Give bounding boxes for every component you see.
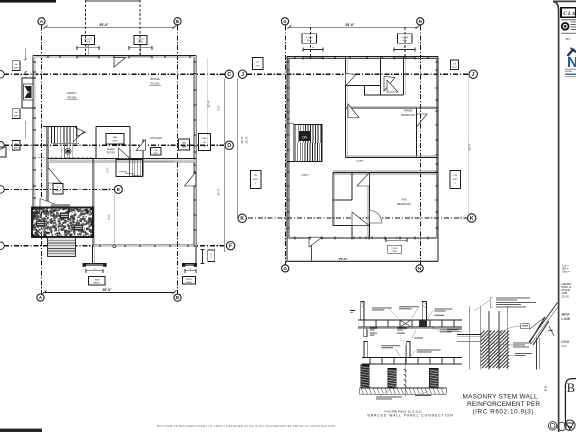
window [128,56,130,59]
door swing 3 [348,104,359,118]
svg-text:HDR: HDR [138,42,143,44]
wall v bath [351,173,353,201]
bottom stud right [430,369,438,389]
door swing 2 [384,77,395,92]
svg-text:25'-0": 25'-0" [345,23,355,27]
wall tag box left [12,61,20,71]
left edge mark [350,309,355,311]
wall ticks right plan top [294,56,296,59]
window dim ticks top right [129,47,152,49]
N logo subtext [565,68,576,71]
door swing 4 [417,114,428,127]
window dim [394,49,415,51]
svg-text:30'-0": 30'-0" [245,136,249,143]
window [76,56,78,59]
grid line K [248,217,468,219]
stair treads upper run [51,126,53,143]
side tag box left top [253,58,264,70]
svg-text:FAMILY: FAMILY [67,91,77,95]
stair lower run [61,143,63,158]
detail: masonry stem wall [447,298,560,416]
window centerline drop right-plan left [310,28,312,57]
grid circle D left fragment [0,142,4,150]
svg-text:30'-0": 30'-0" [468,143,472,150]
svg-text:D: D [227,143,231,149]
entry door swing [119,148,131,159]
svg-text:ENTRY: ENTRY [107,152,115,154]
svg-text:FAMILY: FAMILY [107,148,115,151]
svg-text:BWP: BWP [113,141,119,143]
svg-text:G: G [283,19,287,24]
left plan top wall [33,55,196,57]
wall ticks left plan right [193,61,196,63]
small dim between F and stub [202,250,204,264]
extension line C-F [224,79,226,253]
post double line [536,338,538,370]
interior wall vertical stair-side [47,127,49,208]
right plan right wall [437,57,439,262]
svg-text:B: B [176,295,179,300]
svg-text:REINFORCEMENT PER: REINFORCEMENT PER [467,401,540,408]
grid circle A top [38,18,45,25]
door swing laundry [48,168,61,184]
svg-text:DN: DN [302,136,307,140]
anchor leaders [380,388,392,396]
ledg tag [521,324,530,329]
grid circle J left [238,70,246,78]
wall v closet [416,108,418,158]
crawl tag [386,239,407,241]
node dot on bottom wall [113,245,116,248]
wall ticks right plan bottom [294,237,296,240]
door arc bed2 [370,210,383,223]
wall v hall2 [379,57,381,95]
svg-text:no.: no. [566,36,571,41]
grid circle B bottom [174,294,181,301]
svg-text:KITCHEN: KITCHEN [150,136,162,140]
bottom stud left [361,365,369,388]
BWP tag right [183,277,196,285]
wall tag box [151,148,162,156]
svg-text:J: J [472,72,475,78]
svg-text:B: B [176,19,179,24]
threaded rod [404,345,406,397]
closet top [365,86,381,95]
stem wall hatch [481,331,509,369]
grid circle E [114,185,122,193]
svg-text:2-2x10: 2-2x10 [85,38,92,40]
door swing 1 [346,74,357,87]
svg-text:BEDROOM: BEDROOM [401,113,414,117]
kitchen wall [142,139,144,177]
counter line [143,161,174,163]
window [393,57,395,60]
window centerline drop left [85,0,87,56]
grid circle J right [469,70,477,78]
stair door circle [65,148,71,154]
dim 4ft right stub [185,270,196,272]
stamp circle [562,23,569,30]
dimension line A-B top 25-0 [45,26,174,28]
entry door top wall [114,58,126,67]
bottom wall stub right [183,263,196,265]
svg-text:LAUNDRY: LAUNDRY [101,189,112,192]
pantry tag box [106,134,124,145]
bwp stud upper-right [422,302,426,321]
window centerline drop right [139,0,141,56]
right plan left wall [286,57,288,262]
svg-text:K: K [240,216,244,222]
svg-text:BWP: BWP [14,147,19,149]
svg-text:H: H [419,19,422,24]
grid circle K left [238,214,246,222]
svg-text:5'-0": 5'-0" [107,214,111,220]
svg-text:BWP: BWP [453,179,458,181]
stair up arrow [77,128,86,136]
svg-text:DINING: DINING [150,77,160,81]
grid circle H top [417,18,424,25]
grid line B (vertical) [177,26,179,294]
dimension line G-H top 25-0 [289,26,417,28]
DN arrow [299,131,310,141]
side tag box right top [451,60,459,70]
svg-text:BRACED WALL PANEL CONNECTION: BRACED WALL PANEL CONNECTION [368,413,454,417]
side windows [287,61,289,63]
grid circle G bottom [282,265,289,272]
svg-text:Sec =: Sec = [563,269,571,273]
black corner block [362,364,368,376]
wall ticks left plan left [33,61,36,63]
interior wall parallels [346,57,348,158]
side tag box right mid [450,171,461,189]
svg-text:BWP: BWP [56,191,61,193]
door swing 7 [352,212,369,226]
title block [548,8,576,431]
svg-text:KING: KING [562,340,570,344]
wall h hall [346,85,365,87]
svg-text:ROOM: ROOM [151,82,160,86]
door swing 2b [387,80,398,92]
sheet number round rect [565,379,576,428]
BWP tag left [89,277,106,286]
wall h bedroom3 [346,107,439,109]
grid line A (vertical) [41,26,43,294]
interior wall garage side [92,159,94,247]
wall tag box left [12,109,20,119]
svg-text:LINE: LINE [562,316,571,321]
porch steps [48,238,76,257]
svg-text:LOFT: LOFT [301,173,308,177]
bwp stud lower-left [364,342,367,358]
header tag box [398,34,413,44]
tag box near E [53,184,63,195]
interior wall horizontal main [48,159,196,162]
masonry porch stipple [32,207,94,238]
svg-text:BWP: BWP [14,68,19,70]
svg-text:HDR: HDR [307,40,312,42]
svg-text:N: N [567,54,576,71]
bottom-left scan bar [0,429,42,432]
N logo roof [568,50,576,57]
svg-text:C: C [227,72,231,78]
grid circle F [226,242,234,250]
svg-text:35'-4": 35'-4" [207,100,211,107]
svg-text:HDR: HDR [86,42,91,44]
window [302,57,304,60]
window right wall [194,134,196,136]
door swing 6 [357,173,370,187]
svg-text:5'-6": 5'-6" [217,105,221,111]
svg-text:21'-2": 21'-2" [217,188,221,195]
left dim line [25,48,27,60]
door swing 8 [309,237,322,247]
grid line C [4,73,225,75]
grid line D [4,144,225,146]
30-0 dim right [468,77,470,215]
svg-text:F: F [229,244,232,250]
top note block [496,297,530,300]
svg-text:2-2x10: 2-2x10 [306,37,313,39]
CLS logo box [561,8,576,18]
basement stair well [116,160,143,177]
svg-text:HDR: HDR [182,146,187,148]
wall poche fills [33,56,196,58]
kitchen door swing [136,140,146,151]
left plan bottom wall [93,246,196,248]
grid circle E left fragment [0,186,4,194]
wall ticks right plan left [286,61,289,63]
dim 4ft left stub [86,270,103,272]
stamp side text [571,21,576,24]
door swing right wall [185,172,196,186]
svg-text:BWP: BWP [153,153,158,155]
stair break diagonal [74,132,84,142]
svg-text:G: G [283,266,287,271]
svg-text:BEDROOM: BEDROOM [397,202,410,206]
grid line G (vertical) [285,26,287,265]
grid line H (vertical) [420,26,422,265]
header tag box [134,36,147,45]
sistered note [513,342,532,345]
grid circle K right [468,214,476,222]
door swing rear [40,199,64,208]
grid circle B top [174,18,181,25]
left plan right wall [195,56,197,247]
header tag box [302,34,317,44]
porch corner blocks [32,208,35,211]
sill plate [360,388,447,394]
deck side wall [311,237,313,261]
wall h left room [287,123,294,125]
floor note [515,352,532,355]
svg-text:J: J [241,72,244,78]
svg-text:9'-2": 9'-2" [107,167,110,172]
grid circle C [225,70,233,78]
stem wall verticals [468,306,470,370]
note smudges upper [372,307,392,310]
wall h bottom closet [333,225,370,227]
X blocking [400,320,411,327]
wall v mid [332,173,334,226]
beam line dashed [33,157,92,159]
grid circle G top [281,18,288,25]
right plan bottom wall [287,236,438,238]
svg-text:16oc: 16oc [255,65,260,67]
svg-text:HDR: HDR [402,40,407,42]
svg-text:25'-0": 25'-0" [99,23,109,27]
left plan left wall [32,56,34,208]
side tag box left mid [250,171,261,189]
svg-text:BWP: BWP [253,179,258,181]
brace diagonals [530,317,545,342]
grid circle A bottom [37,294,44,301]
svg-text:2-2x10: 2-2x10 [137,38,144,40]
edge tag box fragment [0,147,6,157]
dim 35-4 [207,58,209,145]
deck edge ticks [353,236,355,238]
svg-text:2x BATH: 2x BATH [356,160,364,163]
wall v bottom closet [351,226,353,238]
svg-text:REG: REG [562,344,568,348]
svg-text:ROOM: ROOM [68,96,77,100]
wall v2 [403,57,405,95]
svg-text:PAN: PAN [113,136,118,139]
svg-text:BWP: BWP [14,116,19,118]
wall ticks right plan right [436,61,439,63]
extension line J-K [237,79,239,219]
svg-text:B: B [567,381,575,395]
grid circle D [225,141,233,149]
detail: braced wall panel connection [350,302,462,418]
ledger double lines [457,334,481,336]
bwp rim band upper [358,319,462,321]
wall v1 [345,57,347,73]
svg-text:TWO: TWO [401,198,407,202]
grid circle H bottom [416,265,423,272]
grid circle F left fragment [0,242,4,250]
header tag box [82,36,95,45]
svg-text:PANEL: PANEL [93,282,101,285]
svg-text:21-00: 21-00 [562,294,570,298]
wall v bed2 [369,173,371,238]
right plan deck edge [285,261,438,263]
wall ticks left plan top [47,55,49,58]
svg-text:2-BWP: 2-BWP [186,279,193,281]
right plan top wall [287,56,438,58]
rear door sill hatch [51,204,70,206]
extension line E to wall [113,194,115,246]
vertical tag box right of stub [208,250,215,262]
svg-text:THREE: THREE [404,109,413,113]
stamp row text [561,18,576,21]
svg-text:PANEL: PANEL [186,281,194,284]
svg-text:C L S: C L S [563,11,575,17]
wall h mid-right [380,94,403,96]
section marker pentagon [24,84,34,100]
stair bottom wall [287,161,322,163]
top-left scan bar [0,0,56,3]
grid line F [4,245,227,247]
note smudges lower [381,344,400,347]
grid line E [4,188,114,190]
sheet border with rounded corner [553,1,576,432]
porch inner tags [36,221,45,227]
svg-text:2-BWP: 2-BWP [93,279,100,281]
dimension line A-B bottom 25-0 [44,291,174,293]
svg-text:HDR: HDR [202,146,207,148]
grid circle C left fragment [0,71,4,79]
hanger left [364,329,367,337]
entry room walls [96,126,130,128]
bwp rim band lower [362,357,462,359]
bottom wall stub left [92,247,94,264]
wall h middle [333,172,438,174]
svg-text:BUT FIRM OR BUILDERS AGENT TO: BUT FIRM OR BUILDERS AGENT TO VERIFY DES… [157,424,335,428]
stair side wall [321,125,323,162]
bottom stud mid [388,369,396,389]
window centerline drop right-plan right [404,28,406,57]
svg-text:HDR: HDR [452,67,457,69]
window dim ticks top left [77,47,99,49]
bwp stud upper-left [361,302,364,321]
svg-text:30'-0": 30'-0" [240,136,244,143]
window dim [303,49,323,51]
small arrow marks [549,326,554,336]
grid line J [247,73,469,75]
svg-text:BWP: BWP [392,251,397,253]
svg-text:H: H [418,266,421,271]
svg-text:(IRC R602.10.9(3): (IRC R602.10.9(3) [473,409,534,416]
svg-text:25'-0": 25'-0" [102,288,112,292]
svg-text:2-2x10: 2-2x10 [401,37,408,39]
stairs down [294,125,322,162]
basement stair steps profile [119,172,141,176]
wall h closet [346,157,439,159]
wall tag box left [12,141,20,151]
svg-text:MASONRY STEM WALL: MASONRY STEM WALL [463,394,538,401]
tag boxes at D line [179,139,190,150]
svg-text:CRWL: CRWL [392,248,399,250]
wall h bath [333,199,352,201]
bwp stud lower-mid [407,342,410,358]
svg-text:K: K [470,216,474,222]
wall ticks left plan bottom [99,245,101,248]
wall bump-out [22,78,33,108]
bottom stamp circles [548,422,556,430]
